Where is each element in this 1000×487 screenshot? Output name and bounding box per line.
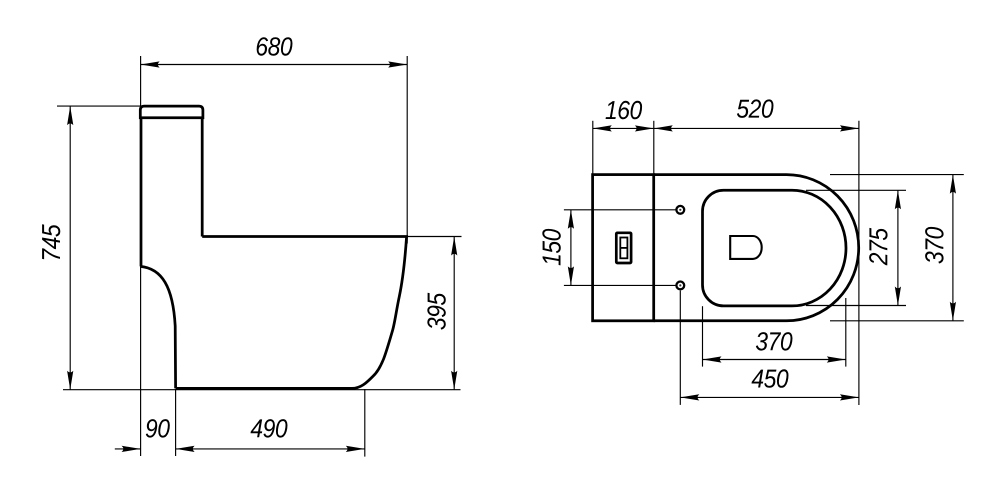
dim 745: dimension line: [69, 106, 71, 390]
dim 275: dimension line: [897, 190, 899, 305]
dim 520: dimension line: [654, 127, 859, 129]
dim 395: top extension line: [407, 236, 462, 238]
dim 370 right: bottom extension line: [830, 320, 964, 322]
dim 520: right arrow: [840, 125, 859, 131]
dim 370 bottom: left extension line: [702, 306, 704, 366]
top view: upper hinge bolt: [676, 206, 684, 214]
dim 745: bottom arrow: [67, 371, 73, 390]
dim 680: left arrow: [141, 61, 160, 67]
dim 160: left arrow: [593, 125, 612, 131]
dim 150: dimension line: [570, 210, 572, 286]
dim 745: label: [42, 224, 60, 259]
dim 395: bottom arrow: [451, 371, 457, 390]
dim 680: label: [257, 37, 293, 56]
dim 150: label: [542, 229, 561, 266]
dim 395: top arrow: [451, 237, 457, 256]
dim 450: label: [752, 369, 789, 388]
top view: flush button outer: [616, 233, 631, 263]
dim 680: left extension line (upper): [140, 56, 142, 106]
dim 150: bottom extension line: [564, 284, 676, 286]
dim 370 bottom: left arrow: [703, 356, 722, 362]
dim 450: right arrow: [840, 394, 859, 400]
dim 490: right arrow: [346, 446, 365, 452]
dim 520: left arrow: [654, 125, 673, 131]
dim 160: dimension line: [593, 127, 654, 129]
dim 450: dimension line: [680, 396, 859, 398]
dim 395: dimension line: [453, 237, 455, 390]
dim 275: top arrow: [895, 190, 901, 209]
dim 490: label: [251, 419, 288, 438]
top view: bowl outline: [654, 175, 859, 321]
dim 370 bottom: right arrow: [827, 356, 846, 362]
top view: seat outline: [703, 190, 847, 306]
dim 90: arrow pointing right: [122, 446, 141, 452]
dim 275: bottom arrow: [895, 287, 901, 306]
dim 680: dimension line: [141, 64, 408, 66]
dim 90: right extension line (shared with 490): [175, 389, 177, 456]
dim 275: top extension line: [806, 189, 906, 191]
dim 490: left arrow: [176, 446, 195, 452]
dim 520: label: [737, 99, 774, 118]
dim 275: label: [869, 228, 888, 265]
dim 160: left extension line: [592, 121, 594, 175]
side view: bowl top edge and rear curve down to base: [176, 237, 407, 389]
dim 680: right extension line: [406, 56, 408, 244]
dim 160: right arrow: [635, 125, 654, 131]
dim 745: top arrow: [67, 106, 73, 125]
dim 680: right arrow: [388, 61, 407, 67]
dim 450: left extension line: [679, 291, 681, 405]
dim 370 bottom: dimension line: [703, 359, 846, 361]
dim 490: dimension line: [176, 448, 365, 450]
dim 90: label: [146, 419, 170, 438]
side view: ground line: [63, 389, 461, 391]
dim 90: tail line outside: [115, 448, 141, 450]
dim 395: label: [427, 293, 446, 330]
dim 745: top extension line: [57, 105, 140, 107]
top view: flush button inner: [620, 238, 627, 259]
dim 450: left arrow: [680, 394, 699, 400]
dim 370 bottom: label: [756, 332, 793, 351]
dim 160/520: middle extension line: [653, 121, 655, 175]
top view: flush button divider: [620, 247, 627, 249]
dim 370 right: bottom arrow: [950, 302, 956, 321]
dim 275: bottom extension line: [806, 305, 906, 307]
top view: tank rectangle: [593, 175, 654, 321]
side view: tank right edge: [201, 118, 204, 237]
dim 370 right: top extension line: [830, 174, 964, 176]
dim 160: label: [606, 101, 643, 120]
top view: lower hinge bolt: [676, 282, 684, 290]
dim 490: right extension line: [364, 389, 366, 457]
dim 150: bottom arrow: [568, 266, 574, 285]
dim 370 bottom: right extension line: [845, 298, 847, 367]
dim 520/450: right long extension line: [858, 121, 860, 405]
side view: tank left edge: [140, 118, 143, 267]
dim 370 right: top arrow: [950, 175, 956, 194]
side view: pedestal front curve: [140, 266, 175, 388]
dim 370 right: dimension line: [952, 175, 954, 321]
dim 370 right: label: [925, 227, 944, 264]
side view: tank lid: [140, 106, 203, 118]
dim 150: top extension line: [564, 209, 676, 211]
top view: D-shaped drain opening: [730, 236, 762, 259]
dim 150: top arrow: [568, 210, 574, 229]
dim 90: left extension line (lower, same x): [140, 266, 142, 456]
